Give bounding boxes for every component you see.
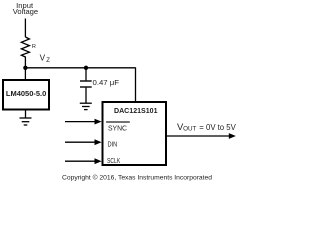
svg-text:OUT: OUT <box>183 126 197 133</box>
resistor R <box>21 37 36 57</box>
svg-text:0.47 μF: 0.47 μF <box>93 78 120 87</box>
svg-text:DAC121S101: DAC121S101 <box>114 106 158 115</box>
svg-text:SCLK: SCLK <box>107 156 120 165</box>
node VOUT label <box>177 121 236 132</box>
shunt reference U1 LM4050-5.0 <box>3 80 49 110</box>
svg-text:Z: Z <box>46 58 50 64</box>
node VZ label <box>40 53 51 63</box>
pin label SYNC (active low) <box>106 122 130 132</box>
input arrow to DIN pin <box>65 139 102 145</box>
svg-text:DIN: DIN <box>108 139 118 148</box>
ground under capacitor <box>80 103 92 109</box>
wire VZ bus horizontal <box>25 67 135 69</box>
svg-text:LM4050-5.0: LM4050-5.0 <box>6 89 46 98</box>
input arrow to SYNC pin <box>65 119 102 125</box>
capacitor C1 0.47 uF <box>80 68 120 103</box>
svg-text:= 0V to 5V: = 0V to 5V <box>199 122 236 132</box>
wire from Input Voltage to resistor R <box>24 19 26 38</box>
svg-text:R: R <box>32 44 36 50</box>
svg-text:V: V <box>40 53 46 62</box>
svg-text:Copyright © 2016, Texas Instru: Copyright © 2016, Texas Instruments Inco… <box>62 174 212 182</box>
junction dot at capacitor tap <box>84 66 88 70</box>
ground under LM4050 <box>20 118 32 125</box>
input arrow to SCLK pin <box>65 158 102 164</box>
svg-text:SYNC: SYNC <box>108 123 127 132</box>
wire LM4050 to ground <box>25 111 27 119</box>
wire resistor to node VZ <box>24 57 26 81</box>
svg-text:Voltage: Voltage <box>13 7 38 16</box>
output arrow VOUT <box>167 133 236 139</box>
node Input Voltage label <box>13 1 38 16</box>
DAC U2 DAC121S101 <box>103 102 167 165</box>
wire bus down to DAC VA pin <box>135 67 137 102</box>
junction dot at VZ node <box>23 66 27 70</box>
